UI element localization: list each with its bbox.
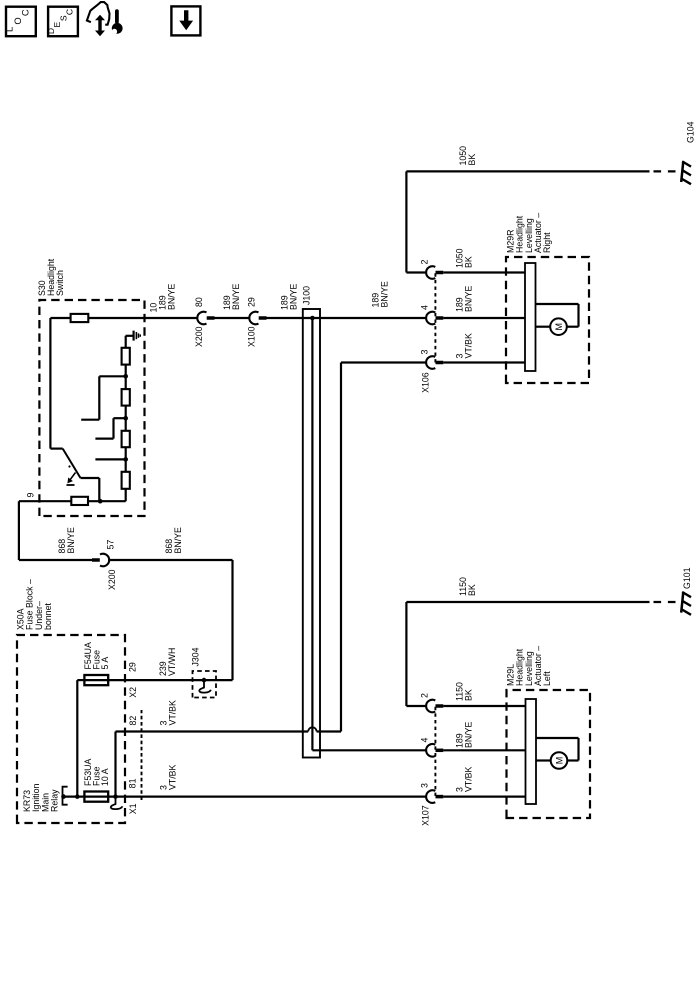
svg-text:2: 2 (420, 260, 430, 265)
junction dot chain tap 3 (123, 457, 128, 462)
connector X106 pin 4 (426, 312, 435, 325)
svg-text:Right: Right (542, 232, 552, 253)
connector X107 pin 2 (426, 700, 435, 713)
resistor chain R4 in S30 (122, 472, 130, 489)
svg-text:57: 57 (106, 540, 116, 550)
wire M29L motor to loop (567, 759, 578, 761)
wire S30 lever lower segment (81, 477, 100, 479)
svg-text:D: D (46, 28, 56, 34)
connector X200 pin 57 (100, 554, 109, 567)
svg-text:VT/WH: VT/WH (167, 648, 177, 676)
svg-text:J100: J100 (302, 286, 312, 305)
svg-text:BN/YE: BN/YE (289, 283, 299, 310)
wire 1050 BK above X106 pin 2 (406, 271, 426, 273)
svg-text:4: 4 (420, 305, 430, 310)
splice pigtail at fuse block output (111, 797, 123, 810)
svg-text:BK: BK (464, 256, 474, 268)
svg-text:4: 4 (420, 738, 430, 743)
wire S30 resistor chain run (125, 336, 127, 501)
connector X100 pin 29 (249, 312, 258, 325)
toolbar icon DESC (box with diagonal rotated letters) (46, 7, 78, 37)
svg-text:BK: BK (464, 689, 474, 701)
svg-text:29: 29 (247, 297, 257, 307)
component box X50A fuse block underbonnet (dashed) (17, 635, 125, 823)
wire into F54UA (77, 679, 85, 681)
wire M29R loop bottom (577, 304, 579, 327)
svg-text:X106: X106 (421, 372, 431, 393)
wire 1150 BK dashed lead-in to G101 (654, 601, 681, 603)
svg-text:M: M (554, 757, 564, 765)
wire S30 tap-3 branch stub (open) (95, 458, 125, 460)
svg-text:80: 80 (194, 297, 204, 307)
wire 868/239 corner run (231, 560, 233, 680)
wire to X1 pin 82 (114, 732, 116, 797)
wire S30 lever stub (50, 447, 62, 449)
svg-text:5 A: 5 A (100, 657, 110, 670)
wire 3 VT/BK across to right actuator column (340, 363, 342, 732)
wire 3 VT/BK from F53UA through X1 pin 81 to X107 pin 3 (85, 795, 426, 797)
wire S30 lever to pin-9 column (98, 478, 100, 501)
wire M29R loop right side (536, 303, 579, 305)
motor M inside M29R (550, 318, 567, 335)
adjustment arrow symbol in S30 (67, 465, 76, 485)
junction dot in J100 (189 BN/YE) (310, 316, 315, 321)
junction dot at KR73 output (61, 794, 66, 799)
svg-text:BN/YE: BN/YE (66, 527, 76, 554)
svg-text:J304: J304 (191, 647, 201, 666)
svg-text:E: E (52, 21, 62, 27)
resistor in S30 on pin-10 feed (71, 314, 89, 322)
resistor chain R3 in S30 (122, 431, 130, 447)
ground G101 (681, 592, 683, 613)
connector X107 pin 4 (426, 744, 435, 757)
wire 1050 BK across to ground drop (405, 171, 407, 272)
wire 1150 BK above X107 pin 2 (406, 705, 426, 707)
wire 3 VT/BK from X107 pin 3 to M29L (443, 795, 526, 797)
svg-text:X1: X1 (128, 803, 138, 814)
ground G104 (681, 161, 683, 182)
component box M29L headlight levelling actuator left (dashed) (507, 690, 591, 818)
connector X200 pin 80 (197, 312, 206, 325)
junction dot chain tap 2 (123, 416, 128, 421)
splice pigtail J304 (199, 680, 211, 693)
svg-text:10 A: 10 A (100, 768, 110, 786)
svg-text:VT/BK: VT/BK (168, 764, 178, 790)
wire 1050 BK dashed lead-in to G104 (654, 170, 681, 172)
junction bar J100 (303, 309, 320, 758)
junction in S30 (lever meets pin-9 column) (98, 499, 103, 504)
svg-text:BN/YE: BN/YE (464, 285, 474, 312)
wire 189 BN/YE from X107 pin 4 to M29L (443, 749, 526, 751)
wire hop over J100 internal wire (308, 727, 316, 731)
wire M29L loop right side (536, 737, 579, 739)
toolbar icon down-arrow box (171, 6, 200, 35)
fuse F53UA 10A (84, 792, 108, 802)
junction dot chain tap 1 (123, 374, 128, 379)
svg-text:BN/YE: BN/YE (464, 721, 474, 748)
wire 1050 BK ground drop (solid) (406, 170, 649, 172)
svg-text:X200: X200 (107, 569, 117, 590)
svg-text:G104: G104 (686, 121, 696, 143)
wire S30 internal top run (49, 318, 51, 449)
wire 1150 BK from X107 pin 2 to M29L (443, 705, 526, 707)
wire feed across to F54UA (76, 680, 78, 797)
wire S30 tap-2 branch stub (open) (95, 437, 113, 439)
connector X107 pin 3 (426, 790, 435, 803)
svg-text:Left: Left (542, 671, 552, 686)
toolbar icon adjustment (car outline, double arrow, wrench) (87, 2, 123, 37)
component box M29R headlight levelling actuator right (dashed) (506, 257, 589, 383)
svg-text:L: L (5, 27, 16, 32)
svg-text:81: 81 (128, 778, 138, 788)
wire 1050 BK from X106 pin 2 to M29R (443, 271, 525, 273)
svg-text:82: 82 (128, 716, 138, 726)
wire M29R motor to loop (567, 326, 579, 328)
svg-text:BN/YE: BN/YE (231, 283, 241, 310)
wire 3 VT/BK from X106 pin 3 to M29R (443, 361, 525, 363)
svg-text:VT/BK: VT/BK (464, 333, 474, 359)
resistor chain R2 in S30 (122, 389, 130, 406)
wire S30 tap-1 branch stub (open) (81, 419, 99, 421)
wire 3 VT/BK below hop (317, 730, 341, 732)
wire 1150 BK ground drop (solid) (406, 601, 649, 603)
svg-text:2: 2 (420, 693, 430, 698)
connector bar inside M29L (526, 699, 537, 804)
svg-text:BN/YE: BN/YE (380, 281, 390, 308)
wire 868 BN/YE top run from S30 pin 9 (18, 501, 20, 560)
toolbar icon LOC (box with diagonal rotated letters) (5, 7, 36, 37)
connector X106 pin 3 (426, 356, 435, 369)
wire 1150 BK across to ground drop (405, 602, 407, 706)
svg-text:BK: BK (467, 154, 477, 166)
svg-text:M: M (554, 323, 564, 331)
switch lever (diagonal) in S30 (63, 449, 81, 478)
wire inside J100 to left branch (311, 318, 313, 750)
connector row dashed line X107 (434, 706, 436, 796)
wire S30 pin-9 column (19, 500, 126, 502)
wire 189 BN/YE from X100 through J100 to X106 (267, 317, 427, 319)
connector X106 pin 2 (426, 266, 435, 279)
wire M29L bar to motor (536, 759, 551, 761)
splice J304 (dashed box) (193, 671, 217, 698)
resistor chain R1 in S30 (122, 348, 130, 365)
connector row dashed line X1 (141, 710, 143, 800)
wire S30 internal pin-10 feed (vertical) (50, 317, 144, 319)
wire S30 tap-2 branch across (112, 418, 114, 438)
internal ground symbol in S30 (134, 331, 141, 341)
svg-text:X2: X2 (128, 687, 138, 698)
wire M29R bar to motor (536, 326, 551, 328)
svg-text:BN/YE: BN/YE (173, 527, 183, 554)
motor M inside M29L (551, 752, 568, 769)
svg-text:O: O (13, 17, 24, 24)
wire 3 VT/BK from X1 pin 82 down to J100 crossing (116, 730, 309, 732)
wire 189 BN/YE from S30 pin 10 (145, 317, 198, 319)
connector row dashed line X106 (434, 273, 436, 363)
wire S30 tap-1 branch across (98, 376, 100, 419)
svg-text:G101: G101 (682, 567, 692, 589)
wire to internal ground in S30 (126, 335, 133, 337)
svg-text:3: 3 (420, 783, 430, 788)
wire KR73 to F53UA (63, 795, 86, 797)
fuse F54UA 5A (84, 675, 108, 685)
svg-text:bonnet: bonnet (43, 603, 53, 630)
svg-text:VT/BK: VT/BK (168, 700, 178, 726)
svg-text:C: C (65, 9, 75, 15)
junction dot after F53UA (113, 794, 118, 799)
wire M29L loop bottom (577, 738, 579, 761)
wire 189 BN/YE from X106 pin 4 to M29R (443, 317, 525, 319)
svg-text:X107: X107 (421, 805, 431, 826)
connector bar inside M29R (525, 263, 536, 371)
wire S30 tap-1 branch up (99, 375, 125, 377)
wire 189 BN/YE from J100 down to X107 pin 4 (312, 749, 426, 751)
svg-text:29: 29 (128, 662, 138, 672)
resistor in S30 on pin-9 column (71, 497, 88, 505)
svg-text:VT/BK: VT/BK (464, 766, 474, 792)
wire 189 BN/YE between X200 and X100 (215, 317, 250, 319)
wire 868 BN/YE down to X200 pin 57 (19, 559, 92, 561)
component box S30 headlight switch (dashed) (39, 300, 144, 516)
svg-text:Relay: Relay (50, 789, 60, 812)
wire S30 tap-2 branch up (114, 417, 126, 419)
svg-text:9: 9 (26, 493, 36, 498)
svg-text:X100: X100 (247, 326, 257, 347)
svg-text:C: C (21, 9, 32, 16)
svg-text:BK: BK (467, 584, 477, 596)
junction dot feed split to F54UA (75, 794, 80, 799)
svg-text:X200: X200 (194, 326, 204, 347)
wire 239 VT/WH from F54UA down through X2 and J304 (85, 679, 233, 681)
svg-text:Switch: Switch (55, 270, 65, 296)
wire 868 BN/YE from X200 to corner (109, 559, 232, 561)
svg-text:3: 3 (420, 350, 430, 355)
junction dot J304 (202, 678, 207, 683)
wire 3 VT/BK down to X106 pin 3 (341, 361, 426, 363)
svg-text:BN/YE: BN/YE (167, 283, 177, 310)
relay contact KR73 ignition main relay (63, 787, 68, 805)
